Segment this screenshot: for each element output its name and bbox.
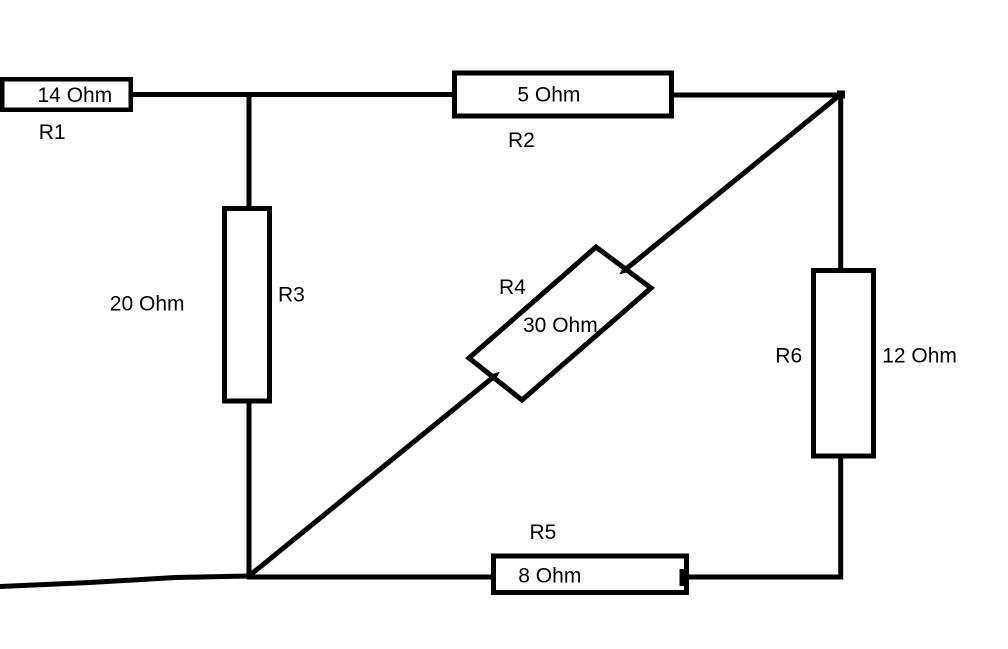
wire tail off-canvas bottom-left <box>0 576 249 587</box>
svg-text:R3: R3 <box>278 284 305 307</box>
wire R5 to bottom-right corner <box>683 575 843 580</box>
svg-text:30 Ohm: 30 Ohm <box>523 314 598 337</box>
resistor R3 box <box>225 209 270 402</box>
wire R6 bottom to bottom-right corner <box>838 451 843 580</box>
diagonal wire bottom-left node to top-right node <box>249 94 841 576</box>
wire junction down to R3 top <box>247 94 252 212</box>
resistor R5 box <box>494 556 687 593</box>
svg-text:R1: R1 <box>39 121 66 144</box>
resistor R6 box <box>814 271 874 457</box>
svg-text:14 Ohm: 14 Ohm <box>38 84 113 107</box>
wire top horizontal R1 to junction to R2 <box>129 92 456 97</box>
svg-text:8 Ohm: 8 Ohm <box>518 565 581 588</box>
svg-text:R6: R6 <box>775 345 802 368</box>
resistor R2 box <box>455 73 672 116</box>
svg-text:R2: R2 <box>508 129 535 152</box>
wire R3 bottom to bottom-left node <box>247 396 252 579</box>
resistor R4 box (rotated) <box>469 247 651 400</box>
resistor R5 wire nub inside right edge <box>680 569 685 586</box>
node top-right junction dot <box>837 91 845 99</box>
svg-text:R5: R5 <box>530 521 557 544</box>
wire R2 to top-right node <box>672 93 843 98</box>
wire bottom-left node to R5 <box>247 575 495 580</box>
svg-text:5 Ohm: 5 Ohm <box>517 84 580 107</box>
wire tip entering R4 upper side <box>619 266 629 275</box>
svg-text:20 Ohm: 20 Ohm <box>110 293 185 316</box>
svg-text:R4: R4 <box>499 276 526 299</box>
resistor R1 box <box>2 79 131 110</box>
wire top-right node down to R6 top <box>838 93 843 273</box>
wire tip entering R4 lower side <box>490 372 500 381</box>
svg-text:12 Ohm: 12 Ohm <box>882 345 957 368</box>
